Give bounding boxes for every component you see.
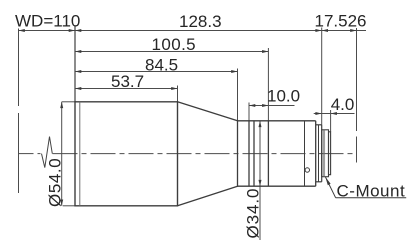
- dimension line dia34 (x=260 vertical): [259, 121, 261, 240]
- flange ring: [316, 125, 322, 182]
- image plane line (x=356.5): [356, 28, 358, 163]
- extension line 100.5 / 10.0 right (x=268.4): [267, 48, 269, 121]
- svg-text:10.0: 10.0: [267, 86, 300, 105]
- svg-text:17.526: 17.526: [315, 11, 367, 30]
- arrow WD left: [19, 29, 25, 32]
- svg-text:128.3: 128.3: [179, 12, 222, 31]
- barrel groove line: [304, 121, 306, 186]
- set screw hole: [305, 168, 309, 172]
- svg-text:Ø34.0: Ø34.0: [244, 188, 263, 239]
- svg-text:C-Mount: C-Mount: [337, 181, 406, 200]
- arrow 128.3 left: [75, 29, 81, 32]
- dimension line dia54 (x=61.7 vertical): [61, 102, 63, 206]
- flange groove line: [318, 125, 320, 182]
- dimension line 84.5 (y=71.5): [75, 71, 238, 73]
- cone taper: [178, 102, 238, 206]
- arrow 128.3 right: [315, 29, 321, 32]
- leader arrowhead: [325, 177, 330, 186]
- C-mount thread body: [322, 130, 331, 177]
- svg-text:53.7: 53.7: [111, 72, 144, 91]
- arrow WD right: [69, 29, 75, 32]
- front bezel inner line: [79, 102, 81, 206]
- dimension line row WD=110 / 128.3 / 17.526 (y=30.5): [19, 30, 367, 32]
- extension line 53.7 (x=177.5): [177, 86, 179, 102]
- dimension line 4.0 (y=113.5, outside arrows): [314, 113, 355, 115]
- dimension line 53.7 (y=88.5): [75, 88, 178, 90]
- dimension line 100.5 (y=51.5): [75, 51, 268, 53]
- arrow 17.526 left: [322, 29, 328, 32]
- rear barrel (dia34): [238, 120, 316, 187]
- dia54 top extension stub: [62, 101, 75, 103]
- svg-text:84.5: 84.5: [145, 55, 178, 74]
- svg-text:4.0: 4.0: [331, 95, 355, 114]
- extension line 84.5 (x=237.5): [237, 69, 239, 121]
- thread hatch texture: [323, 130, 324, 177]
- extension line 10.0 left (x=249): [248, 103, 250, 121]
- extension line thread end 4.0 (x=330.6): [330, 110, 332, 132]
- svg-text:Ø54.0: Ø54.0: [46, 158, 65, 207]
- extension line flange face (x=321.7): [321, 28, 323, 125]
- front body (large cylinder dia54): [75, 101, 178, 206]
- C-Mount leader: [325, 177, 406, 198]
- dimension line 10.0 (y=105.5): [249, 105, 295, 107]
- object plane extension line (left, x=18.5): [18, 29, 20, 194]
- svg-text:100.5: 100.5: [152, 35, 197, 54]
- centerline (horizontal dash-dot axis): [19, 153, 357, 155]
- dia54 bottom extension stub: [63, 205, 75, 207]
- arrow 17.526 right: [350, 29, 356, 32]
- extension line front face (x=75 above body): [74, 26, 76, 102]
- break symbol (zigzag on WD centerline): [42, 137, 53, 168]
- svg-text:WD=110: WD=110: [15, 11, 80, 30]
